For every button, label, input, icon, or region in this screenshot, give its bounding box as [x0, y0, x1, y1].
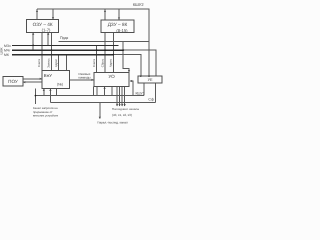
svg-text:Сброс: Сброс: [100, 58, 104, 67]
svg-text:Адрес: Адрес: [54, 58, 58, 67]
svg-text:ШВК: ШВК: [0, 47, 4, 54]
svg-text:УО: УО: [108, 74, 115, 79]
svg-text:(№): (№): [57, 83, 63, 87]
svg-text:МЧт: МЧт: [4, 49, 11, 53]
svg-text:ПОУ: ПОУ: [8, 79, 18, 84]
svg-text:ОЗУ – 4К: ОЗУ – 4К: [33, 22, 53, 27]
svg-text:МЗп: МЗп: [4, 44, 11, 48]
svg-text:команды: команды: [78, 75, 90, 79]
svg-text:(1-7): (1-7): [42, 28, 51, 33]
svg-text:Считв: Считв: [92, 59, 96, 67]
svg-text:Запись: Запись: [47, 58, 51, 68]
svg-text:Прдк: Прдк: [60, 36, 69, 40]
svg-text:внешних устройств: внешних устройств: [33, 114, 59, 118]
svg-text:(8-15): (8-15): [116, 28, 128, 33]
svg-text:Последоват. каналы: Последоват. каналы: [112, 107, 139, 111]
svg-text:КШУ2: КШУ2: [133, 2, 145, 7]
svg-text:КШУ1: КШУ1: [135, 92, 144, 96]
svg-text:УЕ: УЕ: [148, 78, 153, 82]
svg-text:(х0, х1, х2, х3): (х0, х1, х2, х3): [112, 113, 132, 117]
svg-text:ДЗУ – 8К: ДЗУ – 8К: [108, 22, 128, 27]
svg-text:Парал.-послед. канал: Парал.-послед. канал: [97, 121, 128, 125]
svg-text:Считв: Считв: [37, 59, 41, 67]
svg-text:Адрес: Адрес: [109, 58, 113, 67]
svg-text:МК: МК: [4, 53, 9, 57]
svg-text:Сф: Сф: [148, 97, 154, 101]
svg-text:ВнУ: ВнУ: [44, 73, 52, 78]
